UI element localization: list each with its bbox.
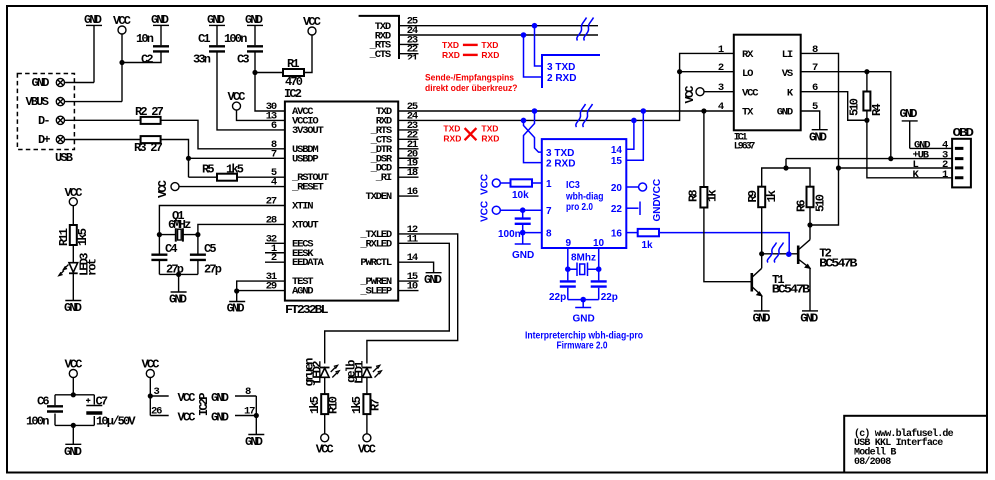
- svg-text:27p: 27p: [204, 262, 222, 276]
- svg-text:L9637: L9637: [734, 141, 756, 152]
- wire ghost TXD 25: [399, 25, 598, 27]
- svg-text:pro 2.0: pro 2.0: [566, 202, 593, 213]
- wire blue pin16: [626, 232, 637, 234]
- wire USB VBUS to VCC: [64, 101, 122, 103]
- svg-text:08/2008: 08/2008: [854, 456, 891, 468]
- capacitor blue 22p left: [549, 269, 576, 303]
- svg-text:LED1: LED1: [353, 361, 367, 384]
- svg-text:BC547B: BC547B: [772, 282, 810, 296]
- wire R5 left: [189, 176, 218, 178]
- svg-text:GND: GND: [245, 13, 263, 27]
- svg-text:8Mhz: 8Mhz: [571, 253, 596, 264]
- IC3 bottom stubs 9 10: [568, 248, 599, 269]
- supply VCC8 below R10: [316, 434, 334, 457]
- node blue pin15 tap on TXD: [641, 108, 647, 114]
- connector USB dashed box: [17, 74, 74, 166]
- svg-text:100n: 100n: [498, 229, 521, 240]
- svg-text:R7: R7: [369, 399, 383, 411]
- svg-text:D+: D+: [38, 133, 50, 147]
- svg-text:1k5: 1k5: [350, 396, 364, 414]
- svg-text:10: 10: [593, 238, 605, 249]
- svg-text:R11: R11: [57, 228, 71, 246]
- svg-text:VCC: VCC: [142, 358, 160, 372]
- svg-text:FT232BL: FT232BL: [285, 303, 328, 317]
- node C3/R1 junction: [252, 70, 257, 75]
- svg-text:GND: GND: [245, 435, 263, 449]
- svg-text:TXD: TXD: [442, 40, 459, 50]
- IC2 unconnected left stubs EECS EESK EEDATA: [265, 243, 285, 262]
- svg-text:GND: GND: [809, 131, 827, 145]
- node C4/C5 gnd rail: [176, 272, 181, 277]
- svg-text:GND: GND: [652, 199, 663, 221]
- svg-text:rot: rot: [86, 258, 100, 276]
- node blue crystal right: [596, 266, 602, 272]
- svg-text:C4: C4: [165, 242, 177, 256]
- wire PWRCTL to ground: [398, 262, 433, 273]
- svg-text:C6: C6: [37, 395, 49, 409]
- ground GND11 IC1 pin5: [801, 111, 828, 145]
- svg-text:VCC: VCC: [113, 14, 131, 28]
- svg-text:GND: GND: [84, 13, 102, 27]
- supply VCC4 at VCCIO: [228, 90, 246, 110]
- wire blue 10k to pin1: [532, 182, 542, 184]
- svg-text:VCC: VCC: [178, 391, 196, 405]
- svg-text:VCC: VCC: [228, 90, 246, 104]
- node blue 22p rail: [580, 297, 586, 303]
- ground GND14 above OBD: [900, 107, 918, 148]
- pin USB D+: [38, 133, 65, 147]
- wire VCC4 to VCCIO pin 13: [237, 110, 285, 120]
- IC3 pin labels bottom 9 10: [566, 238, 605, 249]
- wire LO pin 2: [680, 71, 734, 73]
- svg-text:R10: R10: [327, 396, 341, 414]
- svg-text:VCC: VCC: [358, 443, 376, 457]
- node blue pin14 tap on RXD: [631, 118, 637, 124]
- supply VCC6 above C6 C7: [65, 358, 83, 395]
- resistor R11 1k5: [57, 225, 90, 246]
- wire T1 collector to T2 base: [762, 253, 799, 255]
- wire R1 left: [255, 72, 283, 74]
- wire R5 to _RSTOUT pin 5: [237, 176, 285, 178]
- svg-text:1k5: 1k5: [76, 228, 90, 246]
- svg-text:C2: C2: [141, 53, 153, 67]
- node IC2P GND: [254, 413, 259, 418]
- ground GND1 top-left: [84, 13, 102, 83]
- ghost IC fragment top box edge: [359, 16, 399, 59]
- svg-text:_SLEEP: _SLEEP: [359, 286, 392, 298]
- transistor T1 BC547B: [752, 268, 810, 311]
- svg-text:7: 7: [546, 206, 552, 217]
- node TX/R8 junction: [701, 108, 706, 113]
- svg-text:TXD: TXD: [481, 40, 498, 50]
- svg-text:VBUS: VBUS: [26, 95, 49, 109]
- svg-text:direkt oder überkreuz?: direkt oder überkreuz?: [425, 83, 518, 94]
- svg-text:10µ/50V: 10µ/50V: [96, 414, 136, 428]
- node blue tap RXD ghost: [521, 32, 527, 38]
- break marks T2 base wire: [767, 243, 783, 263]
- ghost IC pin names TXD RXD RTS CTS: [369, 21, 391, 61]
- node blue 1k to T2 base: [786, 251, 792, 257]
- svg-text:TXD: TXD: [443, 123, 460, 133]
- svg-text:GND: GND: [573, 314, 595, 325]
- ground GND9 below C6 C7: [64, 444, 82, 459]
- svg-text:RXD: RXD: [481, 134, 499, 144]
- power pins IC2P GND 8 17: [211, 386, 256, 435]
- wire K down to OBD pin1: [867, 120, 952, 178]
- wire blue pin14: [626, 120, 634, 149]
- capacitor C5 27p: [190, 235, 222, 277]
- wire blue TXD direct to pin3: [535, 26, 543, 66]
- svg-text:6: 6: [271, 120, 277, 132]
- IC2 right pin names: [359, 106, 393, 298]
- break marks main TXD RXD wires: [576, 104, 593, 127]
- connector OBD box: [952, 126, 974, 187]
- node +UB/VS junction: [888, 156, 893, 161]
- svg-text:3V3OUT: 3V3OUT: [292, 125, 324, 137]
- wire USB D+ to R3: [64, 139, 141, 141]
- ghost stubs 23 22: [399, 44, 419, 53]
- svg-text:Sende-/Empfangspins: Sende-/Empfangspins: [425, 72, 514, 83]
- svg-text:IC2: IC2: [284, 87, 302, 101]
- svg-text:GND: GND: [207, 13, 225, 27]
- node IC2P VCC: [148, 393, 153, 398]
- svg-text:R8: R8: [687, 190, 701, 202]
- wire C6 C7 top rail: [55, 395, 94, 445]
- wire R8 top: [703, 111, 705, 187]
- break marks ghost wires: [577, 18, 594, 41]
- node R4 bottom K junction: [864, 118, 869, 123]
- annotation red TXD X TXD crossed: [443, 123, 499, 143]
- svg-text:R5: R5: [202, 163, 214, 177]
- svg-text:1k: 1k: [642, 240, 654, 251]
- supply VCC9 below R7: [358, 434, 376, 457]
- capacitor C7 10u/50V electrolytic: [86, 395, 136, 429]
- node blue tap TXD ghost: [532, 23, 538, 29]
- IC1 pin names: [742, 49, 794, 119]
- OBD pin numbers: [942, 140, 948, 181]
- svg-text:C1: C1: [198, 32, 210, 46]
- wire R6 bottom to T2 collector: [809, 207, 811, 240]
- svg-text:EEDATA: EEDATA: [292, 257, 325, 269]
- svg-text:USB: USB: [55, 151, 73, 165]
- wire L to OBD pin2: [839, 167, 953, 169]
- node C6/C7 bottom: [71, 423, 76, 428]
- capacitor C3 100n: [237, 46, 263, 66]
- supply blue VCC pin20: [626, 179, 663, 200]
- resistor blue 10k: [511, 179, 533, 201]
- svg-text:1k5: 1k5: [308, 396, 322, 414]
- wire K pin6 to R4 bottom: [801, 92, 867, 121]
- svg-text:1: 1: [546, 179, 552, 190]
- copyright text: [854, 428, 954, 468]
- svg-text:_RI: _RI: [375, 172, 392, 184]
- annotation red TXD-TXD direct: [442, 40, 498, 50]
- svg-text:VCC: VCC: [480, 174, 491, 195]
- ground GND6 TEST/AGND: [227, 302, 246, 316]
- svg-text:1: 1: [942, 169, 948, 181]
- wire USB GND to ground: [64, 82, 94, 84]
- svg-text:16: 16: [611, 229, 623, 240]
- copyright box: [844, 416, 987, 473]
- resistor R2 27: [135, 105, 164, 124]
- resistor R10 1k5: [308, 394, 341, 434]
- wire +UB rail: [786, 159, 952, 168]
- resistor R1 470: [283, 57, 304, 89]
- node +UB to pullups: [783, 165, 788, 170]
- svg-text:RXD: RXD: [442, 50, 460, 60]
- pin USB GND: [32, 76, 65, 90]
- IC3 pin labels left: [546, 148, 575, 240]
- wire blue pin15: [626, 111, 643, 160]
- svg-text:10k: 10k: [512, 190, 529, 201]
- wire C1 to 3V3OUT pin 6: [217, 53, 285, 130]
- wire R4 top: [866, 72, 868, 92]
- wire blue crossover RXD to pin3 TXD: [524, 120, 542, 152]
- ghost blue IC3 box corner: [542, 55, 600, 88]
- IC2 right stubs RTS CTS DTR DSR DCD RI TXDEN PWREN SLEEP: [398, 130, 418, 291]
- wire OBD pin4 GND: [910, 147, 952, 149]
- svg-text:VCC: VCC: [156, 180, 170, 198]
- svg-text:XTOUT: XTOUT: [292, 219, 318, 231]
- svg-text:VCC: VCC: [65, 186, 83, 200]
- resistor R8 1k: [687, 187, 720, 208]
- svg-text:GND: GND: [900, 107, 918, 121]
- OBD pin labels: [913, 140, 931, 181]
- ghost blue pin labels 3 TXD 2 RXD: [547, 62, 576, 84]
- capacitor blue 100n: [498, 210, 531, 240]
- ground GND13 T2: [800, 311, 818, 325]
- svg-text:R4: R4: [870, 104, 884, 116]
- wire LI pin8 down K-line: [801, 53, 839, 225]
- svg-text:1k5: 1k5: [226, 163, 244, 177]
- svg-text:R9: R9: [746, 190, 760, 202]
- supply VCC2 above R1: [303, 15, 321, 35]
- svg-text:1k: 1k: [706, 190, 720, 202]
- wire blue pin8: [523, 233, 542, 244]
- svg-text:8: 8: [546, 229, 552, 240]
- wire blue pin1 left: [500, 182, 510, 184]
- node D+/USBDP junction: [186, 156, 191, 161]
- wire R8 to T1 base: [704, 208, 752, 282]
- svg-text:2 RXD: 2 RXD: [546, 159, 575, 170]
- OBD pin bars: [955, 148, 964, 177]
- svg-text:VCC: VCC: [652, 179, 663, 200]
- svg-text:510: 510: [848, 98, 862, 116]
- wire pullup rail R9 R6: [762, 168, 810, 187]
- resistor blue 1k: [638, 229, 659, 251]
- wire R9 bottom to T1 collector: [761, 207, 763, 268]
- resistor R6 510: [795, 187, 828, 212]
- svg-text:14: 14: [611, 145, 623, 156]
- wire XTIN to crystal: [159, 206, 285, 235]
- resistor R5 1k5: [202, 163, 244, 181]
- node T1 collector / T2 base wire: [759, 251, 764, 256]
- wire R2 to USBDM pin 8: [161, 120, 285, 149]
- svg-text:22p: 22p: [601, 292, 618, 303]
- svg-text:R1: R1: [287, 57, 299, 71]
- svg-text:RXD: RXD: [443, 134, 461, 144]
- node VCC/VBUS junction: [119, 60, 124, 65]
- svg-text:_CTS: _CTS: [369, 49, 391, 61]
- svg-text:wbh-diag: wbh-diag: [565, 191, 603, 202]
- svg-text:GND: GND: [227, 302, 245, 316]
- node LO junction: [677, 69, 682, 74]
- svg-text:GND: GND: [800, 311, 818, 325]
- svg-text:IC2P: IC2P: [197, 393, 211, 416]
- ghost IC pin numbers 25 24 23 22: [407, 16, 418, 56]
- ground blue GND pin8: [512, 244, 534, 261]
- svg-text:GND: GND: [64, 445, 82, 459]
- IC2 right pin numbers: [407, 101, 418, 293]
- node TEST/AGND: [234, 288, 239, 293]
- svg-text:100n: 100n: [224, 32, 247, 46]
- svg-text:510: 510: [814, 194, 828, 212]
- crystal blue 8Mhz: [568, 253, 599, 277]
- svg-text:TXDEN: TXDEN: [365, 191, 391, 203]
- svg-text:9: 9: [566, 238, 572, 249]
- svg-text:3 TXD: 3 TXD: [547, 62, 575, 73]
- supply VCC7 IC2P: [142, 358, 160, 416]
- svg-text:20: 20: [611, 183, 623, 194]
- resistor R4 510: [848, 92, 885, 117]
- svg-text:1k: 1k: [765, 190, 779, 202]
- wire ghost RXD 24: [399, 34, 598, 36]
- wire TXD 25 main: [398, 110, 734, 112]
- wire C4 C5 to ground: [159, 274, 198, 292]
- IC1 pin numbers: [718, 44, 818, 113]
- capacitor C4 27p: [151, 235, 183, 277]
- svg-text:C3: C3: [237, 53, 249, 67]
- node blue crystal left: [565, 266, 571, 272]
- svg-text:C7: C7: [96, 395, 108, 409]
- svg-text:22: 22: [611, 204, 623, 215]
- resistor R3 27: [134, 136, 163, 155]
- node blue 100n top: [520, 207, 526, 213]
- svg-text:VCC: VCC: [178, 411, 196, 425]
- wire VS pin7: [801, 72, 891, 159]
- svg-text:TXD: TXD: [481, 123, 498, 133]
- resistor R9 1k: [746, 187, 779, 208]
- wire C2 branch: [122, 25, 161, 62]
- svg-text:GND: GND: [753, 311, 771, 325]
- wire C3 down to AVCC pin 30: [255, 53, 285, 112]
- node blue tap TXD main: [532, 108, 538, 114]
- node blue 100n bottom pin8: [520, 230, 526, 236]
- ground GND5 below crystal caps: [169, 292, 187, 307]
- wire blue 22p gnd rail: [568, 300, 599, 308]
- ground blue GND crystal: [573, 308, 595, 325]
- svg-text:4: 4: [271, 177, 277, 189]
- svg-text:2 RXD: 2 RXD: [547, 73, 576, 84]
- ground GND7 PWRCTL: [424, 273, 442, 287]
- svg-text:VS: VS: [782, 68, 793, 80]
- wire R1 to VCC: [304, 35, 312, 73]
- wire XTOUT to crystal: [198, 224, 285, 234]
- svg-text:AGND: AGND: [292, 286, 313, 298]
- transistor T2 BC547B: [798, 240, 857, 311]
- svg-text:3 TXD: 3 TXD: [546, 148, 574, 159]
- svg-text:VCC: VCC: [683, 86, 697, 104]
- power pins IC2P VCC 3 26: [150, 386, 211, 425]
- wire blue 1k to T2 base: [659, 233, 789, 255]
- wire blue crossover TXD to pin2 RXD: [524, 111, 542, 163]
- resistor R7 1k5: [350, 394, 383, 434]
- svg-text:GND: GND: [151, 13, 169, 27]
- capacitor C2 10n: [136, 32, 169, 67]
- pin USB VBUS: [26, 95, 65, 109]
- svg-text:26: 26: [151, 406, 162, 418]
- wire blue RXD direct to pin2: [524, 35, 543, 77]
- op-amp IC3 wbh-diag box: [542, 139, 627, 248]
- svg-text:100n: 100n: [26, 415, 49, 429]
- capacitor C6 100n: [26, 395, 63, 429]
- node L-line tap: [836, 165, 841, 170]
- wire _TXLED to LED1: [367, 234, 458, 364]
- svg-text:PWRCTL: PWRCTL: [360, 257, 392, 269]
- wire _RXLED to LED2: [325, 243, 450, 363]
- svg-text:VCC: VCC: [65, 358, 83, 372]
- node crystal right: [195, 232, 200, 237]
- svg-text:3: 3: [154, 386, 160, 398]
- svg-text:GND: GND: [777, 107, 793, 119]
- node C6/C7 top: [71, 392, 76, 397]
- IC3 pin labels right: [611, 145, 623, 240]
- IC2 left pin names: [291, 106, 329, 298]
- svg-text:Firmware 2.0: Firmware 2.0: [557, 341, 608, 352]
- svg-text:33n: 33n: [193, 53, 211, 67]
- crystal Q1 6MHz: [159, 209, 198, 242]
- svg-text:R3 27: R3 27: [134, 141, 163, 155]
- node crystal left: [157, 232, 162, 237]
- svg-text:GND: GND: [211, 411, 229, 425]
- svg-text:GND: GND: [211, 391, 229, 405]
- svg-text:BC547B: BC547B: [819, 256, 857, 270]
- svg-text:2: 2: [718, 62, 724, 74]
- svg-text:RXD: RXD: [481, 50, 499, 60]
- svg-text:GND: GND: [424, 273, 442, 287]
- svg-text:VCC: VCC: [480, 201, 491, 222]
- supply VCC3 at _RESET: [156, 180, 179, 198]
- svg-text:VCC: VCC: [303, 15, 321, 29]
- wire USB D- to R2: [64, 119, 141, 121]
- wire blue pin7: [500, 209, 542, 211]
- svg-text:_RESET: _RESET: [291, 182, 324, 194]
- diode LED1 gelb: [345, 360, 382, 394]
- pin USB D-: [38, 114, 65, 128]
- capacitor C1 33n: [193, 32, 225, 67]
- svg-text:C5: C5: [204, 242, 216, 256]
- op-amp IC1 L9637 box: [734, 35, 801, 153]
- node blue tap RXD main: [521, 118, 527, 124]
- ground GND10 IC2P: [245, 435, 264, 450]
- wire TEST AGND to ground: [237, 281, 285, 301]
- supply VCC1 top-left: [113, 14, 131, 102]
- svg-text:VCC: VCC: [742, 88, 759, 100]
- op-amp IC2 FT232BL box: [284, 87, 398, 317]
- wire R3 to USBDP pin 7: [161, 140, 285, 178]
- svg-text:15: 15: [611, 156, 623, 167]
- annotation red RXD-RXD direct: [442, 50, 499, 60]
- svg-text:1: 1: [718, 44, 724, 56]
- svg-text:R2 27: R2 27: [135, 105, 164, 119]
- svg-text:LED2: LED2: [310, 361, 324, 384]
- supply VCC5 LED3 column: [65, 186, 83, 225]
- svg-text:USBDP: USBDP: [292, 153, 318, 165]
- supply blue VCC pin1: [480, 174, 501, 195]
- ground GND8 LED3: [64, 301, 82, 316]
- svg-text:7: 7: [271, 148, 277, 160]
- IC2 left pin numbers: [266, 101, 277, 293]
